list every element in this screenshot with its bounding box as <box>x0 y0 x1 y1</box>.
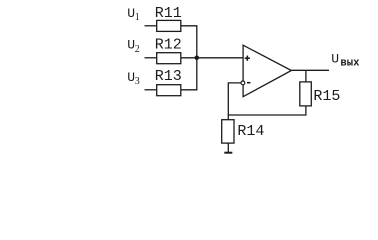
wire node to op-amp + input <box>197 57 243 59</box>
resistor R11 <box>157 20 181 31</box>
wire U3 stub <box>145 89 157 91</box>
wire output to R15 <box>305 70 307 82</box>
op-amp plus input marker <box>245 56 250 61</box>
resistor R12 <box>157 53 181 64</box>
resistor R15 <box>300 82 312 106</box>
op-amp inverting bubble <box>241 81 245 85</box>
svg-text:R13: R13 <box>155 68 182 85</box>
wire output <box>291 69 329 71</box>
ground <box>224 152 232 154</box>
svg-text:R14: R14 <box>237 123 264 140</box>
op-amp U1 triangle <box>243 45 291 96</box>
wire R11 to bus <box>181 26 197 58</box>
svg-text:R15: R15 <box>313 88 340 105</box>
svg-text:2: 2 <box>135 44 140 55</box>
node A junction dot <box>195 56 200 61</box>
svg-text:вых: вых <box>340 58 360 70</box>
svg-text:1: 1 <box>135 12 140 23</box>
op-amp minus input marker <box>247 82 250 84</box>
svg-text:R11: R11 <box>155 5 182 22</box>
svg-text:3: 3 <box>135 76 140 87</box>
wire R15 bottom to feedback <box>228 106 306 115</box>
wire R14 to ground <box>227 143 229 152</box>
wire R12 to node <box>181 57 197 59</box>
wire U1 stub <box>145 25 157 27</box>
svg-text:R12: R12 <box>155 36 182 53</box>
wire U2 stub <box>145 57 157 59</box>
resistor R13 <box>157 85 181 96</box>
svg-text:U: U <box>331 52 339 67</box>
wire R13 to bus <box>181 58 197 90</box>
resistor R14 <box>222 120 234 143</box>
wire inverting input <box>228 83 241 120</box>
